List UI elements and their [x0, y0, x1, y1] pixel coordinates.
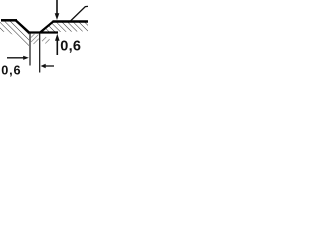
- svg-text:0,6: 0,6: [60, 38, 81, 54]
- leader line: [71, 6, 89, 21]
- gap dimension arrow pointing right: [7, 56, 29, 60]
- left plate bevel edge: [16, 21, 29, 33]
- gap dimension arrow pointing left: [41, 64, 54, 68]
- svg-text:0,6: 0,6: [1, 64, 21, 78]
- extension line left: [29, 34, 31, 66]
- extension line right: [39, 34, 41, 73]
- right plate hatching: [41, 22, 88, 32]
- left plate top edge: [1, 19, 17, 22]
- left plate hatching: [0, 21, 29, 47]
- right plate bevel edge: [40, 21, 53, 32]
- right plate top edge: [53, 20, 89, 22]
- down arrow: [55, 0, 60, 20]
- root line: [28, 31, 58, 33]
- faint hatch remnants below root line: [31, 34, 50, 44]
- up arrow: [55, 34, 60, 55]
